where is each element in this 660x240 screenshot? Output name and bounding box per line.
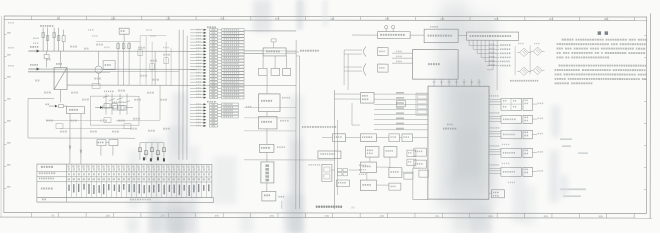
indicator circles above box xyxy=(385,25,395,31)
coolant motor M2 contactor box xyxy=(501,115,522,123)
scan smudge streak center xyxy=(240,0,306,233)
wires strip to center bus xyxy=(244,31,296,131)
limit switch SQ5 xyxy=(487,60,510,62)
terminal XT1-23 wire number xyxy=(196,97,201,98)
terminal XT1-5 wire number xyxy=(196,41,201,42)
terminal XT1-11 xyxy=(190,59,244,62)
terminal XT1-18 wire number xyxy=(196,81,201,82)
power box input stub L2 xyxy=(392,56,413,59)
arrow terminal left 2 xyxy=(29,68,40,71)
terminal XT1-12 wire number xyxy=(196,63,201,64)
left area extra wires xyxy=(46,36,171,129)
terminal XT1-10 label xyxy=(224,57,239,59)
limit switch SQ3 xyxy=(487,52,510,54)
lube motor M5 label right xyxy=(537,170,543,172)
terminal XT1-11 label xyxy=(224,60,240,62)
wire between top boxes xyxy=(352,34,467,37)
notes paragraph 1 xyxy=(562,39,648,41)
terminal XT1-5 label xyxy=(224,41,240,43)
caption under table xyxy=(316,205,355,209)
terminal XT1-20 wire number xyxy=(196,87,200,88)
terminal XT1-6 label xyxy=(224,44,240,46)
spindle motor M1 terminal box xyxy=(523,98,537,110)
terminal XT2-3 xyxy=(190,109,239,112)
feed motor M3 wire labels xyxy=(489,127,499,129)
terminal XT1-7 wire number xyxy=(196,47,201,48)
terminal XT1-22 xyxy=(190,93,244,96)
brace group upper xyxy=(364,47,389,57)
terminal XT1-22 label xyxy=(224,94,240,96)
CNC box label xyxy=(443,124,456,130)
svg-text:365: 365 xyxy=(215,214,220,218)
svg-text:635: 635 xyxy=(385,17,390,21)
terminal XT1-16 label xyxy=(224,75,239,77)
control cable label xyxy=(308,164,320,166)
notes paragraph 2 xyxy=(559,65,647,67)
spindle motor M1 wire labels xyxy=(489,95,498,97)
terminal XT1-6 wire number xyxy=(196,44,200,45)
svg-text:455: 455 xyxy=(275,17,280,21)
feedback box tall xyxy=(322,164,332,181)
terminal dots lower-left xyxy=(143,157,165,161)
feed motor M3 feeder stubs xyxy=(489,131,501,136)
bottom box small xyxy=(262,183,284,201)
terminal strip XT2 header xyxy=(207,101,216,103)
terminal XT1-4 xyxy=(190,38,244,41)
label 2QF xyxy=(30,64,38,66)
terminal XT1-1 wire number xyxy=(196,29,201,30)
terminal XT1-9 wire number xyxy=(196,53,201,54)
terminal XT1-4 wire number xyxy=(196,38,201,39)
contact group K2 xyxy=(117,94,130,115)
terminal XT1-23 xyxy=(190,96,244,99)
terminal XT1-8 wire number xyxy=(196,50,201,51)
terminal XT1-14 wire number xyxy=(196,69,201,70)
spindle motor M1 contactor box xyxy=(501,98,522,110)
limit switch SQ4 xyxy=(487,56,511,58)
terminal XT1-2 wire number xyxy=(196,32,201,33)
terminal XT2-4 xyxy=(190,112,239,115)
label right of supply box xyxy=(286,51,299,53)
lube motor M5 wire labels xyxy=(489,164,499,166)
terminal XT1-19 wire number xyxy=(196,84,201,85)
transformer secondary wires xyxy=(28,85,196,103)
terminal XT1-18 xyxy=(190,81,244,84)
transformer TC1 xyxy=(54,51,67,90)
solenoid labels xyxy=(518,43,539,44)
terminal XT2-3 label xyxy=(224,110,233,112)
terminal XT1-14 xyxy=(190,69,244,72)
terminal XT1-3 xyxy=(190,35,244,38)
vertical text box xyxy=(261,152,274,183)
terminal XT1-8 label xyxy=(224,51,239,53)
hydraulic motor M4 feeder stubs xyxy=(489,149,501,154)
hydraulic motor M4 wire labels xyxy=(489,145,499,147)
coolant motor M2 terminal box xyxy=(523,115,537,123)
pulse box xyxy=(389,168,402,178)
aux box row3 xyxy=(336,180,401,191)
small labels below branch 3 xyxy=(502,144,515,183)
rectifier bridge VC1 xyxy=(517,48,531,56)
filter box B xyxy=(271,56,280,76)
servo box xyxy=(360,162,376,173)
fuse 1RD xyxy=(46,104,68,108)
power source box xyxy=(413,50,459,80)
axis drive box xyxy=(365,147,379,158)
terminal XT1-17 xyxy=(190,78,244,81)
svg-text:725: 725 xyxy=(440,17,445,21)
isolation transformer label box xyxy=(378,32,411,39)
feeder phase labels xyxy=(33,29,169,48)
frame zone ticks left xyxy=(4,34,7,188)
svg-text:725: 725 xyxy=(435,214,440,218)
bus N xyxy=(28,71,110,73)
handwheel group xyxy=(396,101,426,180)
svg-text:545: 545 xyxy=(330,17,335,21)
terminal number marks xyxy=(211,29,215,126)
terminal XT1-13 label xyxy=(224,66,240,68)
feeder labels xyxy=(40,25,53,27)
terminal XT1-21 xyxy=(190,90,244,93)
filter box A xyxy=(259,56,268,76)
terminal XT1-15 wire number xyxy=(196,72,201,73)
wire horizontal lower-left xyxy=(28,137,135,139)
text rows right of connector xyxy=(359,165,366,175)
diode VD1 xyxy=(95,105,107,109)
svg-text:815: 815 xyxy=(494,17,499,21)
axis drive box 2 xyxy=(384,147,397,158)
faint streak top center2 xyxy=(322,0,328,26)
terminal XT1-21 wire number xyxy=(196,90,201,91)
limit switch SQ2 xyxy=(487,48,510,50)
stabilized supply box xyxy=(263,48,286,56)
label TC xyxy=(56,63,62,65)
svg-text:275: 275 xyxy=(161,214,166,218)
distribution box right xyxy=(467,32,519,40)
svg-text:365: 365 xyxy=(220,16,225,20)
frame zone numbers top xyxy=(57,16,609,21)
terminal XT2-1 xyxy=(190,103,239,106)
terminal XT1-12 xyxy=(190,62,244,65)
terminal XT2-2 label xyxy=(224,107,234,109)
hydraulic motor M4 terminal box xyxy=(523,148,537,157)
opto isolator box xyxy=(361,93,375,104)
terminal XT1-17 label xyxy=(224,78,240,80)
terminal XT1-11 wire number xyxy=(196,60,201,61)
terminal XT2-1 wire number xyxy=(196,103,201,104)
hydraulic motor M4 label right xyxy=(537,151,543,153)
relay output box row xyxy=(322,134,428,142)
notes title xyxy=(598,31,608,34)
terminal XT1-12 label xyxy=(224,63,239,65)
terminal XT1-20 xyxy=(190,87,244,90)
terminal XT2-8 wire number xyxy=(196,125,201,126)
frame zone ticks top xyxy=(32,16,635,21)
frame zone ticks bottom xyxy=(31,213,634,219)
bus L1 xyxy=(28,50,196,52)
terminal XT1-10 wire number xyxy=(196,56,201,57)
terminal XT2-6 wire number xyxy=(196,119,201,120)
bridge top feed wires xyxy=(497,40,530,90)
scan smudge streaks bottom-left xyxy=(127,92,199,235)
terminal XT1-4 label xyxy=(224,38,240,40)
signal wires to CNC xyxy=(374,94,428,130)
terminal feed bus vertical xyxy=(179,30,187,160)
terminal XT1-2 xyxy=(190,32,244,35)
faint pencil marks right xyxy=(560,138,588,197)
wire number left edge 1 xyxy=(8,47,14,49)
left small boxes scatter xyxy=(56,50,168,129)
svg-text:(8): (8) xyxy=(351,205,354,209)
terminal XT1-7 label xyxy=(224,47,239,49)
terminal XT1-17 wire number xyxy=(196,78,201,79)
terminal XT1-14 label xyxy=(224,69,239,71)
table footer PR cell xyxy=(42,198,151,200)
CNC system box GC20Y xyxy=(428,86,489,199)
lower-left contact bank xyxy=(138,143,165,160)
terminal XT1-13 xyxy=(190,65,244,68)
terminal XT1-2 label xyxy=(224,32,240,34)
terminal XT1-16 wire number xyxy=(196,75,201,76)
frame zone ticks right xyxy=(644,35,647,189)
terminal XT1-19 label xyxy=(224,84,240,86)
connector grid small xyxy=(337,169,347,176)
CNC bottom extension xyxy=(413,168,428,200)
wire number left edge 2 xyxy=(8,65,14,67)
terminal XT1-15 label xyxy=(224,72,240,74)
table row4 vertical labels xyxy=(68,184,209,196)
terminal XT2-2 xyxy=(190,106,239,109)
signal wire labels xyxy=(396,92,404,129)
terminal XT1-3 wire number xyxy=(196,35,201,36)
driver box xyxy=(259,129,274,153)
coolant motor M2 feeder stubs xyxy=(489,116,501,121)
feed motor M3 terminal box xyxy=(523,130,537,139)
contact group K1 xyxy=(103,91,118,115)
hydraulic motor M4 contactor box xyxy=(501,148,522,157)
table row3 numbers xyxy=(68,178,210,180)
terminal XT2-7 wire number xyxy=(196,122,201,123)
small relay box KA0 xyxy=(119,28,129,42)
control fuse group xyxy=(117,42,131,86)
incoming supply feeders xyxy=(42,28,60,52)
power box input stub L1 xyxy=(392,51,413,54)
wire bus into opto xyxy=(334,94,360,125)
interface box xyxy=(258,111,277,129)
terminal strip XT1 header xyxy=(207,26,216,28)
spindle motor M1 label right xyxy=(538,103,544,105)
left area scatter labels xyxy=(35,44,170,133)
filter box C xyxy=(283,56,291,76)
table header row text xyxy=(67,165,210,170)
terminal XT2-4 wire number xyxy=(196,112,201,113)
table stub column labels xyxy=(39,166,55,190)
MDI panel small boxes bottom-left of CNC xyxy=(407,150,429,177)
terminal XT1-9 xyxy=(190,53,244,56)
lamp feed wire xyxy=(489,193,492,195)
terminal XT1-15 xyxy=(190,72,244,75)
terminal XT1-10 xyxy=(190,56,244,59)
label 1QF xyxy=(30,46,38,48)
coolant motor M2 label right xyxy=(537,118,543,120)
bottom long wire xyxy=(244,160,335,209)
lube motor M5 feeder stubs xyxy=(489,168,501,173)
fuse FU1 xyxy=(62,30,65,52)
limit switch SQ6 xyxy=(487,64,510,66)
terminal XT1-23 label xyxy=(224,97,240,99)
terminal XT1-5 xyxy=(190,41,244,44)
arrow terminal left 1 xyxy=(29,50,40,53)
CNC left small module xyxy=(416,93,428,115)
controller box U21 xyxy=(424,26,458,43)
svg-text:545: 545 xyxy=(325,214,330,218)
terminal XT1-3 label xyxy=(224,35,239,37)
svg-text:635: 635 xyxy=(380,214,385,218)
svg-text:985: 985 xyxy=(599,214,604,218)
terminal XT1-1 label xyxy=(224,29,239,31)
terminal XT1-8 xyxy=(190,50,244,53)
terminal XT2-6 xyxy=(190,119,218,121)
svg-text:185: 185 xyxy=(111,16,116,20)
rectifier bridge VC2 xyxy=(531,47,545,55)
wires down to table xyxy=(69,114,82,164)
breaker QF1 xyxy=(44,51,49,68)
terminal XT2-5 wire number xyxy=(196,116,201,117)
lower-left relay cluster xyxy=(97,140,118,156)
terminal XT1-1 xyxy=(190,28,244,31)
svg-text:185: 185 xyxy=(106,213,111,217)
terminal XT1-6 xyxy=(190,44,244,47)
bus riser center-left xyxy=(296,40,338,209)
svg-text:815: 815 xyxy=(489,214,494,218)
feed motor M3 label right xyxy=(537,133,542,135)
cable caption xyxy=(302,126,336,128)
coolant motor M2 wire labels xyxy=(489,112,499,114)
wire bundle to limit switches xyxy=(469,40,493,70)
power supply box 48V xyxy=(67,107,85,114)
zone label corner xyxy=(8,22,14,24)
svg-text:905: 905 xyxy=(549,17,554,21)
power box input stub L3 xyxy=(392,61,413,64)
regulator box xyxy=(259,75,281,111)
rectifier bridge VC3 xyxy=(517,67,531,75)
fan wires to braces xyxy=(344,50,362,90)
wires in central block xyxy=(331,157,414,185)
lube motor M5 contactor box xyxy=(501,167,522,176)
terminal XT2-1 label xyxy=(224,103,233,105)
brace group lower xyxy=(364,64,389,76)
wire vertical left xyxy=(27,99,29,138)
wire branch to strip xyxy=(135,51,179,120)
terminal XT2-2 wire number xyxy=(196,106,201,107)
rectifier bridge VC4 xyxy=(531,66,545,74)
frame zone numbers bottom xyxy=(51,213,603,218)
terminal XT1-19 xyxy=(190,84,244,87)
labels beside chain xyxy=(246,97,290,148)
CNC top pins xyxy=(434,79,479,86)
wire horizontal mid-left xyxy=(28,71,179,73)
terminal XT1-21 label xyxy=(224,91,240,93)
supply box feed wires xyxy=(244,31,296,54)
table column lines xyxy=(71,164,206,198)
lube motor M5 terminal box xyxy=(523,167,537,176)
bus L2 xyxy=(28,68,196,70)
terminal XT1-20 label xyxy=(224,87,239,89)
scan smudge streak right xyxy=(213,122,536,226)
connection table frame xyxy=(37,164,214,202)
terminal XT2-7 xyxy=(190,122,218,124)
limit switch SQ1 xyxy=(487,44,510,46)
work lamp box xyxy=(491,190,504,198)
terminal XT2-5 label xyxy=(223,116,232,118)
indicator circle PV xyxy=(95,51,115,85)
spindle control box xyxy=(318,151,341,159)
table row2 numbers xyxy=(68,173,210,175)
terminal XT2-4 label xyxy=(224,113,233,115)
CNC top pin labels xyxy=(433,81,481,82)
rectifier cluster frame xyxy=(90,96,139,125)
spindle motor M1 feeder stubs xyxy=(489,99,501,104)
feed motor M3 contactor box xyxy=(501,130,522,139)
terminal XT2-8 xyxy=(190,125,218,127)
terminal XT1-7 xyxy=(190,47,244,50)
main horizontal bus to center xyxy=(196,56,300,86)
faint smudge dabs right margin xyxy=(549,105,568,202)
frame zone numbers left xyxy=(7,32,11,188)
terminal XT1-22 wire number xyxy=(196,93,201,94)
terminal XT1-9 label xyxy=(224,54,240,56)
svg-text:985: 985 xyxy=(604,17,609,21)
terminal XT1-16 xyxy=(190,75,244,78)
terminal XT1-13 wire number xyxy=(196,66,201,67)
svg-text:455: 455 xyxy=(270,214,275,218)
electromagnet caption 1DT-4DT xyxy=(510,80,538,82)
scan smudge stain center-right xyxy=(436,0,496,233)
terminal XT2-5 xyxy=(190,115,239,118)
terminal XT1-18 label xyxy=(224,81,239,83)
svg-text:275: 275 xyxy=(166,16,171,20)
terminal XT2-3 wire number xyxy=(196,109,201,110)
svg-text:905: 905 xyxy=(544,214,549,218)
capacitor C1 xyxy=(107,101,133,110)
